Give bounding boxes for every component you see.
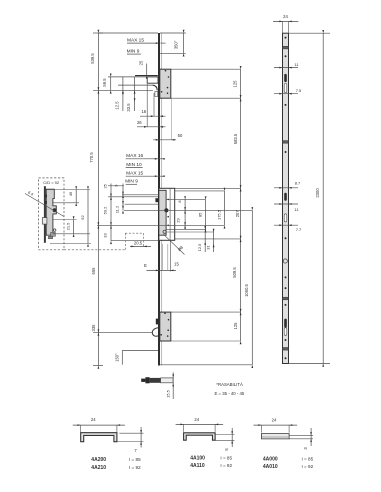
dashed detail box	[39, 178, 65, 250]
svg-text:335: 335	[91, 324, 96, 332]
svg-text:12.5: 12.5	[197, 243, 202, 252]
svg-text:125: 125	[233, 322, 238, 330]
latch axis line	[93, 89, 153, 91]
dim MAX 15 / MIN 9 (top)	[127, 37, 166, 54]
latch strike slot	[155, 91, 158, 96]
svg-text:31: 31	[206, 245, 211, 250]
strip slot mid dark	[284, 193, 287, 201]
hole circle d8	[163, 230, 166, 233]
svg-text:33: 33	[102, 233, 107, 238]
svg-text:85: 85	[198, 212, 203, 217]
dim 350 deg bracket	[160, 30, 186, 57]
strip slot top dark	[284, 74, 287, 82]
bottom hook case (edge view)	[160, 312, 171, 341]
svg-text:583.5: 583.5	[233, 133, 238, 144]
svg-text:33.5: 33.5	[126, 103, 131, 112]
profile 4A000 section	[262, 434, 290, 439]
dim column x185 (8 / 29)	[176, 196, 187, 229]
dim 24 (strip top)	[273, 14, 298, 33]
right dimension chain line	[240, 66, 242, 344]
fixing pin (bottom)	[141, 377, 173, 383]
leader line d8	[164, 234, 185, 254]
svg-text:E: E	[144, 263, 147, 268]
dashed connector	[64, 249, 125, 251]
dim 21.5	[53, 216, 90, 237]
svg-text:11.2: 11.2	[114, 205, 119, 213]
dim 20.5	[130, 240, 151, 247]
svg-text:655: 655	[91, 267, 96, 275]
svg-text:24: 24	[91, 417, 96, 422]
dim 583.5	[233, 133, 238, 144]
dim 1050.5 line	[244, 207, 253, 368]
svg-text:I = 92: I = 92	[302, 464, 314, 469]
labels 4A200 4A210	[91, 457, 141, 471]
svg-text:29: 29	[176, 218, 181, 223]
svg-text:24: 24	[194, 417, 199, 422]
dim 15.5 (pin)	[165, 372, 174, 399]
svg-text:21.5: 21.5	[65, 222, 70, 231]
cylinder hub dot	[164, 208, 168, 212]
central lock case outer (edge view)	[159, 188, 175, 240]
dim 125 top	[232, 80, 237, 88]
svg-text:MIN 9: MIN 9	[125, 179, 138, 185]
dim 770.5	[89, 152, 94, 163]
svg-text:350°: 350°	[174, 40, 179, 49]
svg-text:4A000: 4A000	[263, 457, 278, 463]
svg-text:2300: 2300	[315, 188, 320, 198]
svg-text:92: 92	[80, 215, 85, 220]
svg-text:59.5: 59.5	[102, 78, 107, 87]
bottom case bolt	[156, 319, 159, 325]
dim 25 (latch top)	[138, 60, 147, 79]
svg-text:16: 16	[141, 109, 146, 114]
svg-text:MAX 15: MAX 15	[127, 37, 144, 43]
svg-text:*RASABILITÀ: *RASABILITÀ	[216, 382, 243, 387]
svg-text:7.5: 7.5	[296, 88, 302, 93]
note rasabilita	[215, 382, 245, 396]
side view hole circle	[54, 229, 56, 231]
svg-text:26: 26	[137, 120, 142, 125]
strip slot handle	[284, 214, 287, 222]
svg-text:15: 15	[174, 262, 179, 267]
dim 12.5 (top)	[114, 77, 123, 111]
dashed profile outline near case	[125, 233, 143, 250]
svg-text:4A010: 4A010	[263, 464, 278, 470]
dim column x224 (175.5)	[217, 188, 226, 229]
dim E and 15	[144, 240, 179, 271]
faceplate front view strip	[283, 33, 289, 363]
strip dim ticks	[274, 67, 298, 226]
profile 4A000 thickness dim 3	[289, 428, 313, 450]
svg-text:50.2: 50.2	[102, 206, 107, 215]
strip slot bottom outline	[284, 328, 287, 336]
dim 335	[91, 324, 96, 332]
side view bottom pin	[48, 232, 55, 238]
side view cylinder dot	[53, 208, 57, 212]
profile 4A100 section	[184, 433, 216, 440]
profile 4A000 dim 24	[254, 418, 298, 433]
screw dots top case	[161, 70, 170, 94]
dim MAX 16 / MIN 10 / MAX 15 / MIN 9 (centre)	[125, 153, 165, 185]
dim column x205 (85)	[198, 196, 207, 232]
svg-text:C/D = 92: C/D = 92	[43, 180, 60, 185]
profile 4A100 thickness dim 5	[215, 428, 234, 451]
cylinder axis line	[124, 209, 252, 211]
svg-text:4A110: 4A110	[190, 463, 205, 469]
svg-text:I = 92: I = 92	[129, 465, 141, 470]
svg-text:4A210: 4A210	[91, 465, 106, 471]
profile 4A200 dim 24	[73, 417, 125, 433]
svg-text:24: 24	[283, 14, 288, 19]
svg-text:MAX 15: MAX 15	[126, 170, 143, 176]
dim 59.5	[102, 74, 111, 94]
labels 4A100 4A110	[190, 456, 232, 470]
dim 207	[235, 210, 240, 218]
svg-text:7.7: 7.7	[296, 227, 302, 232]
svg-text:12.5: 12.5	[114, 101, 119, 110]
dim 655	[91, 267, 96, 275]
svg-text:MAX 16: MAX 16	[126, 153, 143, 159]
side view faceplate bar	[44, 186, 46, 243]
strip slot top outline	[284, 84, 287, 93]
screw dots bottom case	[160, 313, 169, 337]
svg-text:MIN 9: MIN 9	[127, 48, 140, 54]
svg-text:15.5: 15.5	[165, 389, 170, 398]
tick bottom left	[93, 365, 103, 367]
svg-text:207: 207	[235, 210, 240, 218]
svg-text:I = 85: I = 85	[129, 457, 141, 462]
dim 26	[137, 84, 166, 128]
dim 92	[50, 186, 91, 246]
lock faceplate edge view (vertical bar)	[159, 33, 162, 366]
svg-text:539.5: 539.5	[90, 53, 95, 64]
profile 4A200 thickness dim 7	[117, 427, 144, 453]
left dimension chain line	[97, 33, 99, 366]
svg-text:I = 85: I = 85	[302, 457, 314, 462]
strip dim labels	[294, 62, 302, 232]
ext lines right of case	[160, 69, 252, 365]
bottom hook	[152, 328, 158, 336]
strip slot bottom dark	[284, 319, 287, 328]
svg-text:25: 25	[102, 183, 107, 188]
dim 33.5	[126, 77, 135, 112]
dim 509.5	[232, 267, 237, 278]
svg-text:509.5: 509.5	[232, 267, 237, 278]
svg-text:175.5: 175.5	[217, 209, 222, 220]
svg-text:46: 46	[68, 191, 73, 196]
strip joints	[283, 46, 289, 350]
dim column x123 (9 / 11.2)	[113, 184, 124, 214]
dim 125 bottom	[233, 322, 238, 330]
central lock case body	[159, 190, 166, 235]
leader 6.4	[25, 190, 64, 217]
label C/D = 92	[43, 180, 60, 185]
svg-text:150°: 150°	[115, 353, 120, 362]
tick top left	[93, 32, 103, 34]
dim 46	[46, 186, 90, 206]
top extension line	[98, 32, 158, 34]
svg-text:I = 92: I = 92	[220, 463, 232, 468]
aux deadbolt (left of faceplate)	[155, 198, 158, 202]
dim 50	[153, 98, 183, 141]
dim 2300	[289, 30, 331, 367]
svg-text:4A100: 4A100	[190, 456, 205, 462]
bottom case axis line	[93, 332, 153, 334]
profile 4A100 dim 24	[176, 417, 224, 432]
dim 16	[140, 93, 166, 117]
svg-text:770.5: 770.5	[89, 152, 94, 163]
svg-text:MIN 10: MIN 10	[126, 162, 142, 168]
profile 4A200 section	[81, 433, 117, 442]
strip hole circle	[283, 259, 287, 263]
dim column x111 (25 / 50.2 / 33)	[102, 183, 112, 244]
handle axis line	[97, 224, 225, 226]
dim 150 deg (bottom bevel)	[115, 351, 158, 365]
svg-text:E = 35 - 40 - 45: E = 35 - 40 - 45	[215, 391, 245, 396]
svg-text:4A200: 4A200	[91, 457, 106, 463]
svg-text:I = 85: I = 85	[220, 456, 232, 461]
svg-text:20.5: 20.5	[134, 240, 143, 245]
dim 12.5 and 31 (below case)	[197, 226, 215, 252]
svg-text:8.7: 8.7	[295, 181, 301, 186]
strip screw holes	[285, 37, 287, 360]
latch bolt (scrocco)	[108, 76, 158, 91]
svg-text:125: 125	[232, 80, 237, 88]
svg-text:1050.5: 1050.5	[244, 283, 249, 296]
top deadbolt case (edge view)	[160, 69, 171, 98]
side view lock body	[46, 189, 56, 235]
svg-text:25: 25	[138, 60, 143, 65]
case small dots	[167, 199, 169, 227]
dim 539.5	[90, 53, 95, 64]
side view protrusions	[42, 195, 47, 225]
ext lines centre-left	[108, 186, 159, 241]
labels 4A000 4A010	[263, 457, 314, 471]
chain arrows left column	[98, 30, 100, 369]
svg-text:24: 24	[272, 418, 277, 423]
svg-text:50: 50	[178, 133, 183, 138]
